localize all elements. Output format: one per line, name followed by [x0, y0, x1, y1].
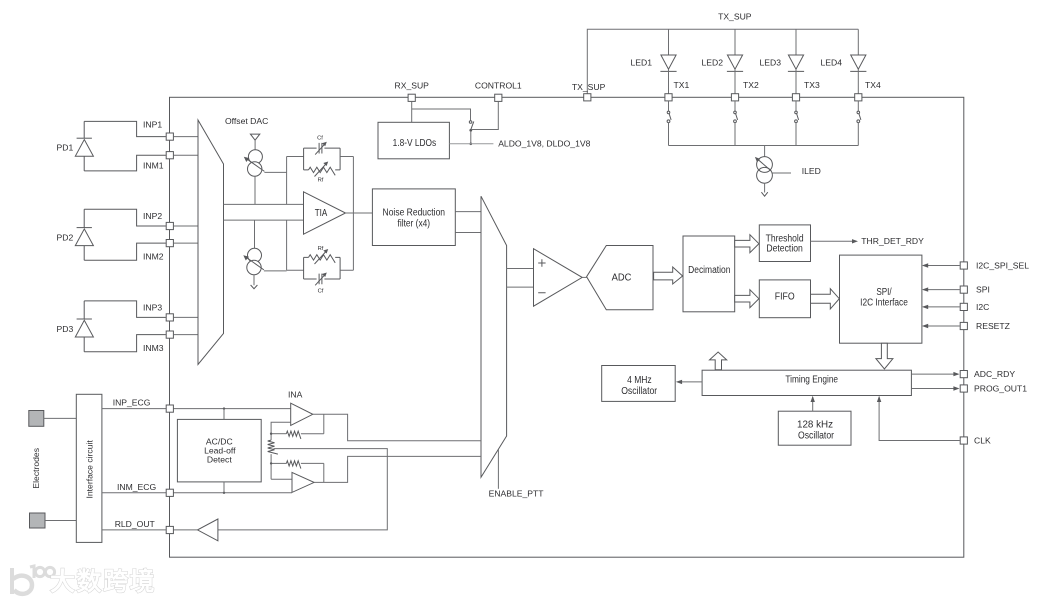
current source IDAC2 (bottom) — [254, 220, 256, 248]
pad CLK — [960, 437, 967, 444]
128 kHz Oscillator box — [778, 411, 851, 445]
LED3 — [788, 55, 803, 69]
svg-text:Offset DAC: Offset DAC — [225, 116, 268, 126]
mux M2 — [481, 196, 507, 477]
wire mux M1 to TIA (bus -) — [224, 219, 304, 221]
junction INM_ECG tap — [223, 492, 225, 494]
Interface circuit box — [76, 394, 102, 542]
wire INP3 to mux — [173, 316, 198, 318]
svg-text:ADC: ADC — [612, 272, 632, 283]
resistor RG — [268, 440, 278, 454]
pad TX1 — [665, 94, 672, 101]
current source ILED — [757, 157, 773, 173]
svg-text:LED3: LED3 — [760, 58, 782, 68]
wire RX_SUP to LDO — [412, 101, 471, 122]
wire RESETZ to SPI box — [924, 325, 960, 327]
pad RLD_OUT — [166, 526, 173, 533]
Timing Engine box — [702, 370, 911, 395]
electrode 1 — [29, 411, 44, 427]
wire INM2 to mux — [173, 242, 198, 244]
wire TX_SUP rail to LED2 anode — [734, 29, 736, 55]
svg-text:INA: INA — [288, 389, 303, 399]
photodiode PD1 — [84, 121, 166, 170]
resistor Rf (bottom, variable) — [309, 255, 336, 263]
pad I2C — [960, 303, 967, 310]
wire interface to RLD pad — [102, 529, 166, 531]
pad INM1 — [166, 152, 173, 159]
pad TX2 — [731, 94, 738, 101]
svg-text:TX2: TX2 — [743, 80, 759, 90]
svg-text:Electrodes: Electrodes — [31, 448, 41, 489]
svg-text:Cf: Cf — [318, 289, 324, 295]
op-amp PGA — [534, 249, 583, 307]
chip boundary — [170, 97, 964, 557]
pad SPI — [960, 286, 967, 293]
junction INP_ECG tap — [223, 407, 225, 409]
wire INP2 to mux — [173, 225, 198, 227]
switch under TX1 — [668, 101, 670, 111]
svg-text:PD1: PD1 — [57, 143, 74, 153]
svg-text:THR_DET_RDY: THR_DET_RDY — [861, 236, 924, 246]
svg-text:Noise Reduction: Noise Reduction — [383, 207, 446, 218]
capacitor Cf (top, variable) — [319, 143, 322, 154]
svg-text:CONTROL1: CONTROL1 — [475, 81, 522, 91]
pad INM2 — [166, 240, 173, 247]
FIFO box — [759, 280, 810, 318]
svg-text:Oscillator: Oscillator — [621, 386, 658, 397]
svg-text:Cf: Cf — [317, 136, 323, 142]
wire INP1 to mux — [173, 136, 198, 138]
pad INP3 — [166, 314, 173, 321]
current source IDAC1 (top) — [250, 134, 259, 140]
wire electrode 2 to interface — [45, 520, 76, 522]
AC/DC Lead-off Detect box — [177, 419, 261, 482]
svg-text:RX_SUP: RX_SUP — [395, 81, 430, 91]
block arrow SPI to Timing Engine — [876, 343, 893, 369]
1.8-V LDOs box — [378, 122, 449, 159]
wire INM3 to mux — [173, 334, 198, 336]
wire INP_ECG — [102, 408, 291, 410]
wire ALDO/DLDO output — [449, 143, 493, 145]
svg-text:PD2: PD2 — [57, 232, 74, 242]
svg-text:I2C: I2C — [976, 302, 989, 312]
4 MHz Oscillator box — [602, 366, 676, 402]
wire TIA out — [346, 212, 373, 214]
op-amp INA2 — [292, 472, 314, 492]
svg-text:INM_ECG: INM_ECG — [117, 482, 156, 492]
pad INM_ECG — [166, 489, 173, 496]
svg-text:ALDO_1V8, DLDO_1V8: ALDO_1V8, DLDO_1V8 — [498, 139, 590, 149]
svg-text:LED4: LED4 — [821, 58, 843, 68]
svg-text:TX_SUP: TX_SUP — [572, 82, 606, 92]
wire INA2 out to mux M2 — [314, 456, 481, 482]
pad INM3 — [166, 331, 173, 338]
wire I2C to SPI box — [924, 306, 960, 308]
svg-text:ILED: ILED — [802, 166, 821, 176]
svg-text:INP1: INP1 — [143, 119, 162, 129]
block arrow up from Timing Engine — [710, 352, 727, 370]
wire CLK to Timing Engine — [879, 397, 960, 440]
svg-text:Interface circuit: Interface circuit — [84, 440, 94, 499]
feedback network Cf/Rf (top) — [287, 157, 304, 205]
wire INM_ECG — [102, 492, 292, 494]
svg-text:RESETZ: RESETZ — [976, 321, 1010, 331]
resistor R1 (INA1 feedback) — [271, 433, 286, 435]
wire electrode 1 to interface — [44, 417, 77, 419]
svg-text:I2C_SPI_SEL: I2C_SPI_SEL — [976, 260, 1029, 270]
pad INP_ECG — [166, 405, 173, 412]
svg-text:ENABLE_PTT: ENABLE_PTT — [489, 489, 545, 499]
svg-text:Oscillator: Oscillator — [798, 431, 835, 442]
resistor Rf (top, variable) — [304, 169, 341, 171]
electrode 2 — [30, 513, 46, 528]
IDAC2 ground arrow — [253, 275, 255, 286]
Decimation box — [683, 236, 735, 312]
svg-text:TX_SUP: TX_SUP — [718, 12, 752, 22]
ADC — [587, 246, 653, 310]
ILED ground arrow — [764, 183, 766, 192]
LED4 — [851, 55, 866, 69]
wire PROG_OUT1 — [911, 388, 958, 390]
svg-text:TX4: TX4 — [865, 80, 881, 90]
svg-text:PD3: PD3 — [57, 324, 74, 334]
wire I2C_SPI_SEL to SPI box — [924, 265, 960, 267]
switch under TX3 — [795, 101, 797, 111]
svg-text:INM2: INM2 — [143, 251, 164, 261]
wire filter to mux M2 (b) — [455, 232, 481, 234]
wire mux M1 to TIA (bus +) — [224, 203, 304, 205]
wire LED cathode rail — [669, 145, 859, 147]
svg-text:TX1: TX1 — [674, 80, 690, 90]
wire ENABLE_PTT — [497, 449, 499, 488]
svg-text:Rf: Rf — [318, 246, 324, 252]
pad TX4 — [855, 94, 862, 101]
wire rail to ILED — [764, 146, 766, 157]
wire INA1 out to mux M2 — [313, 414, 481, 440]
wire tap to AC/DC detect — [223, 409, 225, 420]
pad RESETZ — [960, 322, 967, 329]
svg-text:SPI: SPI — [976, 285, 990, 295]
svg-text:RLD_OUT: RLD_OUT — [115, 519, 156, 529]
svg-text:FIFO: FIFO — [775, 292, 795, 303]
pad CONTROL1 — [495, 94, 502, 101]
svg-text:TIA: TIA — [315, 208, 328, 219]
svg-text:I2C Interface: I2C Interface — [860, 298, 908, 309]
pad TX_SUP — [584, 94, 591, 101]
pad RX_SUP — [408, 94, 415, 101]
switch LDO output — [469, 121, 472, 124]
wire 128 kHz to Timing Engine — [812, 397, 814, 411]
Threshold Detection box — [759, 225, 810, 262]
pad INP1 — [166, 133, 173, 140]
svg-text:CLK: CLK — [974, 436, 991, 446]
svg-text:PROG_OUT1: PROG_OUT1 — [974, 384, 1027, 394]
pad I2C_SPI_SEL — [960, 262, 967, 269]
svg-text:TX3: TX3 — [804, 80, 820, 90]
mux M1 — [198, 120, 224, 365]
Noise Reduction filter box — [372, 189, 455, 246]
wire RLD tap — [218, 449, 387, 530]
wire tap to AC/DC detect (bottom) — [223, 482, 225, 493]
wire TX_SUP rail to LED4 anode — [857, 29, 859, 55]
svg-text:SPI/: SPI/ — [876, 287, 892, 298]
svg-text:INP3: INP3 — [143, 302, 162, 312]
svg-text:INM1: INM1 — [143, 160, 164, 170]
wire Timing Engine to 4 MHz Oscillator — [678, 381, 703, 383]
net TX_SUP top rail — [587, 29, 858, 93]
svg-text:Decimation: Decimation — [688, 265, 730, 276]
SPI/I2C Interface box — [840, 255, 922, 343]
capacitor Cf (bottom, variable) — [304, 278, 341, 280]
feedback network Rf/Cf (bottom) — [287, 220, 304, 270]
svg-text:INP2: INP2 — [143, 211, 162, 221]
svg-text:128 kHz: 128 kHz — [797, 420, 833, 431]
pad INP2 — [166, 222, 173, 229]
svg-text:Detect: Detect — [207, 455, 232, 465]
svg-text:filter (x4): filter (x4) — [398, 218, 431, 229]
svg-text:INP_ECG: INP_ECG — [113, 397, 151, 407]
op-amp INA1 — [291, 403, 313, 425]
wire RLD buffer to pad — [173, 529, 197, 531]
resistor R2 (INA2 feedback) — [271, 462, 286, 464]
photodiode PD3 — [84, 301, 166, 352]
svg-text:ADC_RDY: ADC_RDY — [974, 369, 1015, 379]
wire filter to mux M2 (a) — [455, 211, 481, 213]
svg-text:LED1: LED1 — [631, 58, 653, 68]
wire mux M2 to PGA (-) — [507, 286, 534, 288]
svg-text:4 MHz: 4 MHz — [627, 375, 652, 386]
wire SPI to SPI box — [924, 289, 960, 291]
wire PGA to ADC — [582, 276, 586, 278]
wire IDAC1 to TIA input — [254, 176, 256, 204]
svg-text:大数跨境: 大数跨境 — [50, 567, 156, 596]
wire INM1 to mux — [173, 154, 198, 156]
photodiode PD2 — [84, 209, 166, 260]
block arrow FIFO to SPI — [811, 289, 840, 309]
svg-text:LED2: LED2 — [702, 58, 724, 68]
block arrow Decimation to FIFO — [735, 290, 759, 308]
svg-text:Detection: Detection — [766, 243, 803, 254]
wire TX_SUP rail to LED3 anode — [795, 29, 797, 55]
wire INA1 inverting input — [271, 422, 291, 440]
svg-text:Rf: Rf — [318, 178, 324, 184]
svg-text:1.8-V LDOs: 1.8-V LDOs — [393, 138, 437, 149]
wire mux M2 to PGA (+) — [507, 268, 534, 270]
svg-text:Timing Engine: Timing Engine — [785, 375, 838, 386]
svg-text:INM3: INM3 — [143, 343, 164, 353]
block arrow Decimation to Threshold Detection — [735, 235, 759, 253]
LED2 — [727, 55, 742, 69]
pad PROG_OUT1 — [960, 385, 967, 392]
pad TX3 — [792, 94, 799, 101]
watermark logo — [12, 566, 55, 594]
wire TX_SUP rail to LED1 anode — [668, 29, 670, 55]
pad ADC_RDY — [960, 371, 967, 378]
wire CONTROL1 to switch — [472, 101, 498, 129]
op-amp TIA — [304, 192, 346, 234]
LED1 — [661, 55, 676, 69]
block arrow ADC to Decimation — [654, 267, 683, 284]
wire THR_DET_RDY — [811, 240, 857, 242]
switch under TX4 — [857, 101, 859, 111]
switch under TX2 — [734, 101, 736, 111]
wire ADC_RDY — [911, 373, 958, 375]
op-amp RLD buffer — [198, 519, 218, 541]
